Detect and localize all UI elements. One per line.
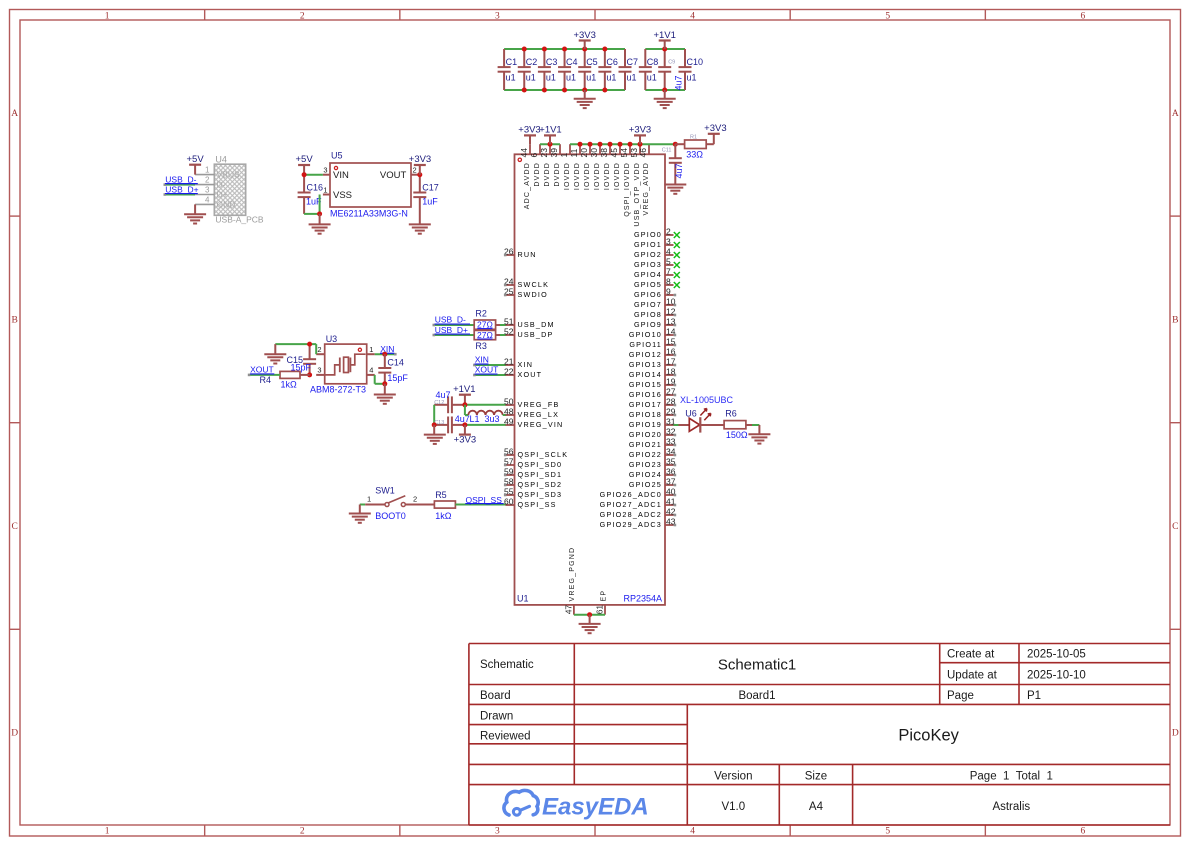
svg-text:C5: C5	[586, 57, 598, 67]
svg-text:A: A	[1172, 109, 1179, 119]
svg-text:2: 2	[413, 494, 417, 503]
svg-text:61: 61	[595, 605, 605, 615]
svg-text:B: B	[12, 315, 18, 325]
U1 top pin 30 IOVDD	[589, 144, 601, 190]
svg-text:QSPI_SD3: QSPI_SD3	[518, 490, 563, 499]
svg-text:GPIO6: GPIO6	[634, 290, 662, 299]
svg-text:Astralis: Astralis	[992, 801, 1030, 813]
svg-text:52: 52	[504, 326, 514, 336]
svg-text:1: 1	[369, 345, 373, 354]
U1 top pin 38 IOVDD	[599, 144, 611, 190]
U1 pin 2 GPIO0	[634, 226, 680, 239]
U1 pin 52 USB_DP	[504, 326, 553, 339]
U1 pin 4 GPIO2	[634, 246, 680, 259]
svg-text:Create at: Create at	[947, 649, 995, 661]
U1 pin 57 QSPI_SD0	[504, 456, 562, 469]
svg-text:2: 2	[300, 827, 305, 837]
U1 pin 33 GPIO21	[629, 436, 676, 449]
svg-text:22: 22	[504, 366, 514, 376]
svg-text:QSPI_IOVDD: QSPI_IOVDD	[624, 162, 631, 217]
ground cap bank C9	[654, 90, 676, 108]
svg-text:VREG_FB: VREG_FB	[518, 400, 560, 409]
U1 pin 18 GPIO14	[629, 366, 676, 379]
svg-text:+3V3: +3V3	[573, 30, 595, 41]
svg-text:U4: U4	[215, 154, 227, 164]
capacitor C8	[639, 49, 659, 90]
svg-text:C: C	[1172, 522, 1178, 532]
power +3V3 ADC_AVDD	[518, 125, 540, 145]
net label USB_D+	[165, 184, 199, 194]
capacitor C13 4u7	[434, 414, 470, 433]
svg-text:USB_D+: USB_D+	[435, 325, 468, 335]
svg-text:Page: Page	[947, 690, 974, 702]
resistor R3 27ohm	[474, 330, 506, 351]
power +3V3 VREG (inverted)	[454, 425, 476, 446]
svg-text:DVDD: DVDD	[554, 162, 561, 187]
svg-text:+3V3: +3V3	[518, 125, 540, 136]
svg-text:D: D	[11, 729, 18, 739]
svg-text:GPIO22: GPIO22	[629, 450, 662, 459]
svg-text:QSPI_SCLK: QSPI_SCLK	[518, 450, 569, 459]
svg-text:GPIO21: GPIO21	[629, 440, 662, 449]
svg-text:U3: U3	[326, 334, 338, 344]
U1 pin 10 GPIO7	[634, 296, 676, 309]
svg-text:RUN: RUN	[518, 250, 537, 259]
wire VREG_VIN net	[465, 424, 506, 426]
svg-text:USB_D-: USB_D-	[165, 174, 196, 184]
ground crystal left	[264, 344, 286, 363]
svg-text:C1: C1	[506, 57, 518, 67]
junction U5 gnd node	[317, 211, 322, 216]
svg-text:1: 1	[105, 827, 110, 837]
U1 pin 55 QSPI_SD3	[504, 486, 562, 499]
svg-text:GPIO26_ADC0: GPIO26_ADC0	[600, 490, 662, 499]
wire R6 to ground	[746, 425, 760, 434]
svg-text:46: 46	[638, 148, 648, 158]
U1 pin 42 GPIO28_ADC2	[600, 506, 677, 519]
svg-text:4: 4	[666, 246, 671, 256]
U1 pin 48 VREG_LX	[504, 406, 559, 419]
svg-text:15pF: 15pF	[387, 373, 408, 383]
svg-text:GPIO13: GPIO13	[629, 360, 662, 369]
capacitor C7	[619, 49, 639, 90]
wire net USB_D- at R2	[433, 324, 475, 327]
svg-text:IOVDD: IOVDD	[614, 162, 621, 190]
U1 pin 7 GPIO4	[634, 266, 680, 279]
wire net XIN at crystal	[375, 353, 397, 356]
ground U5	[309, 214, 331, 234]
svg-text:GPIO16: GPIO16	[629, 390, 662, 399]
wire VREG_FB net	[465, 404, 506, 406]
svg-text:Board: Board	[480, 690, 511, 702]
svg-text:3: 3	[666, 236, 671, 246]
ground C14	[374, 384, 396, 404]
svg-text:+3V3: +3V3	[454, 435, 476, 446]
svg-text:GPIO10: GPIO10	[629, 330, 662, 339]
svg-text:IOVDD: IOVDD	[564, 162, 571, 190]
svg-text:VREG_VIN: VREG_VIN	[518, 420, 564, 429]
net label USB_D-	[165, 174, 198, 184]
junction VREG +1V1 node	[462, 402, 467, 407]
U1 pin 14 GPIO10	[629, 326, 676, 339]
net label USB_D- at R2	[435, 314, 471, 324]
svg-text:IOVDD: IOVDD	[604, 162, 611, 190]
wire IOVDD rail	[570, 143, 649, 145]
svg-text:1: 1	[105, 12, 110, 22]
svg-text:USB_D+: USB_D+	[165, 184, 198, 194]
svg-text:D-: D-	[217, 180, 226, 190]
svg-text:DVDD: DVDD	[544, 162, 551, 187]
svg-text:47: 47	[563, 605, 573, 615]
svg-text:GPIO24: GPIO24	[629, 470, 662, 479]
svg-text:45: 45	[609, 148, 619, 158]
svg-text:3: 3	[317, 365, 321, 374]
svg-text:54: 54	[619, 148, 629, 158]
svg-text:1: 1	[559, 153, 569, 158]
junction C15 bottom	[307, 372, 312, 377]
svg-text:USB_DM: USB_DM	[518, 320, 555, 329]
U1 pin 25 SWDIO	[504, 286, 548, 299]
ground C17	[409, 224, 431, 233]
svg-text:USB_D-: USB_D-	[435, 314, 466, 324]
svg-text:VIN: VIN	[333, 170, 349, 181]
svg-text:33Ω: 33Ω	[686, 149, 703, 159]
power +1V1 DVDD	[539, 125, 561, 145]
svg-text:3: 3	[323, 166, 327, 175]
svg-text:5: 5	[885, 12, 890, 22]
U1 pin 32 GPIO20	[629, 426, 676, 439]
junction PGND node	[587, 612, 592, 617]
svg-text:SWDIO: SWDIO	[518, 290, 548, 299]
svg-text:USB-A_PCB: USB-A_PCB	[215, 215, 264, 225]
U1 top pin 23 DVDD	[539, 144, 551, 186]
power +3V3 cap bank	[573, 30, 595, 49]
svg-text:4u7: 4u7	[674, 75, 684, 90]
svg-text:GPIO7: GPIO7	[634, 300, 662, 309]
svg-text:B: B	[1172, 315, 1178, 325]
U1 pin 8 GPIO5	[634, 276, 680, 289]
svg-text:Update at: Update at	[947, 670, 998, 682]
svg-text:SW1: SW1	[375, 485, 395, 495]
svg-text:USB_DP: USB_DP	[518, 330, 554, 339]
svg-text:2025-10-10: 2025-10-10	[1027, 670, 1086, 682]
svg-text:USB_OTP_VDD: USB_OTP_VDD	[634, 162, 641, 227]
U1 pin 51 USB_DM	[504, 316, 555, 329]
svg-text:u1: u1	[627, 73, 637, 83]
svg-text:4u7: 4u7	[436, 390, 451, 400]
svg-text:u1: u1	[606, 73, 616, 83]
resistor R1 33ohm	[675, 134, 714, 159]
svg-text:C9: C9	[668, 60, 675, 66]
svg-text:u1: u1	[526, 73, 536, 83]
regulator U5 ME6211A33M3G-N	[323, 151, 420, 219]
svg-text:23: 23	[539, 148, 549, 158]
svg-text:C10: C10	[687, 57, 704, 67]
svg-text:4: 4	[369, 365, 373, 374]
svg-text:5: 5	[885, 827, 890, 837]
svg-text:C7: C7	[627, 57, 639, 67]
svg-text:GPIO17: GPIO17	[629, 400, 662, 409]
svg-text:DVDD: DVDD	[534, 162, 541, 187]
U1 top pin 39 DVDD	[549, 144, 561, 186]
svg-text:GPIO2: GPIO2	[634, 250, 662, 259]
svg-text:+3V3: +3V3	[409, 154, 431, 165]
svg-text:GPIO3: GPIO3	[634, 260, 662, 269]
inductor L1 3u3	[468, 411, 502, 424]
svg-text:U6: U6	[685, 409, 697, 419]
svg-text:1: 1	[323, 185, 327, 194]
wire VREG_AVDD to filter	[649, 143, 675, 145]
svg-text:2: 2	[300, 12, 305, 22]
svg-text:7: 7	[666, 266, 671, 276]
svg-text:GPIO27_ADC1: GPIO27_ADC1	[600, 500, 662, 509]
svg-text:Schematic: Schematic	[480, 659, 534, 671]
svg-text:2: 2	[413, 166, 417, 175]
svg-text:GPIO23: GPIO23	[629, 460, 662, 469]
svg-text:1kΩ: 1kΩ	[281, 379, 298, 389]
U1 pin 12 GPIO8	[634, 306, 676, 319]
svg-text:GPIO8: GPIO8	[634, 310, 662, 319]
svg-text:u1: u1	[647, 73, 657, 83]
resistor R6 150ohm	[724, 409, 748, 441]
svg-text:RP2354A: RP2354A	[623, 594, 662, 604]
junction dots cap bank	[522, 47, 667, 93]
svg-text:GPIO11: GPIO11	[629, 340, 662, 349]
svg-text:u1: u1	[586, 73, 596, 83]
svg-text:3: 3	[495, 12, 500, 22]
svg-text:Drawn: Drawn	[480, 711, 513, 723]
svg-text:u1: u1	[687, 73, 697, 83]
svg-text:QSPI_SS: QSPI_SS	[518, 500, 557, 509]
svg-text:20: 20	[579, 148, 589, 158]
U1 pin 61 EP	[595, 590, 608, 615]
svg-text:D: D	[1172, 729, 1179, 739]
svg-text:VREG_LX: VREG_LX	[518, 410, 560, 419]
wire +3V3 cap bank top rail	[504, 48, 685, 50]
svg-text:VBUS: VBUS	[217, 170, 240, 180]
capacitor C6	[598, 49, 618, 90]
svg-text:6: 6	[529, 153, 539, 158]
wire +5V to VIN	[304, 174, 323, 176]
svg-text:P1: P1	[1027, 690, 1041, 702]
svg-text:GPIO0: GPIO0	[634, 230, 662, 239]
svg-text:GPIO9: GPIO9	[634, 320, 662, 329]
net label USB_D+ at R3	[435, 325, 471, 335]
crystal U3 ABM8-272-T3	[310, 334, 375, 394]
svg-text:GPIO12: GPIO12	[629, 350, 662, 359]
resistor R5 1k	[434, 490, 455, 521]
U1 top pin 44 ADC_AVDD	[519, 144, 531, 209]
svg-text:GPIO28_ADC2: GPIO28_ADC2	[600, 510, 662, 519]
resistor R2 27ohm	[474, 308, 506, 329]
U1 pin 47 VREG_PGND	[563, 547, 576, 615]
capacitor C5	[578, 49, 598, 90]
wire net USB_D- at U4	[164, 183, 196, 186]
svg-text:2: 2	[205, 176, 210, 185]
svg-text:4: 4	[690, 827, 695, 837]
svg-text:48: 48	[504, 406, 514, 416]
power +3V3 IOVDD	[629, 125, 651, 145]
U1 pin 16 GPIO12	[629, 346, 676, 359]
svg-text:R4: R4	[260, 375, 272, 385]
svg-text:21: 21	[504, 356, 514, 366]
capacitor C15	[287, 344, 317, 375]
svg-text:U1: U1	[517, 594, 529, 604]
U1 pin 21 XIN	[504, 356, 533, 369]
U1 pin 40 GPIO26_ADC0	[600, 486, 677, 499]
ground U4	[184, 204, 206, 223]
U1 pin 56 QSPI_SCLK	[504, 446, 568, 459]
svg-text:L1 3u3: L1 3u3	[470, 414, 500, 424]
svg-text:IOVDD: IOVDD	[594, 162, 601, 190]
EasyEDA logo	[504, 790, 649, 820]
ground C11	[664, 185, 686, 194]
capacitor C17	[413, 175, 439, 225]
svg-text:R1: R1	[690, 134, 697, 140]
svg-text:QSPI_SD1: QSPI_SD1	[518, 470, 563, 479]
junction C15 top	[307, 342, 312, 347]
wire VREG_LX to U1	[503, 414, 507, 416]
U1 pin 22 XOUT	[504, 366, 542, 379]
svg-text:C16: C16	[307, 183, 324, 193]
svg-text:Board1: Board1	[738, 690, 775, 702]
resistor R4	[260, 371, 310, 389]
junction C14 bottom	[382, 381, 387, 386]
svg-text:R2: R2	[475, 308, 487, 318]
U1 pin 59 QSPI_SD1	[504, 466, 562, 479]
U1 pin 28 GPIO17	[629, 396, 676, 409]
wire SW1 gnd side	[360, 504, 385, 506]
svg-text:ME6211A33M3G-N: ME6211A33M3G-N	[330, 209, 408, 219]
svg-text:GPIO29_ADC3: GPIO29_ADC3	[600, 520, 662, 529]
svg-text:ABM8-272-T3: ABM8-272-T3	[310, 384, 366, 394]
U1 top pin 20 IOVDD	[579, 144, 591, 190]
U1 pin 49 VREG_VIN	[504, 416, 563, 429]
svg-text:30: 30	[589, 148, 599, 158]
U1 pin 37 GPIO25	[629, 476, 676, 489]
ground VREG	[424, 425, 446, 444]
wire crystal pin2 to C15	[275, 344, 316, 354]
U1 pin 24 SWCLK	[504, 276, 549, 289]
U1 pin 60 QSPI_SS	[504, 496, 557, 509]
wire GPIO19 to LED	[674, 424, 690, 426]
svg-text:C6: C6	[606, 57, 618, 67]
svg-text:Page 1 Total 1: Page 1 Total 1	[970, 771, 1053, 783]
U1 top pin 11 IOVDD	[569, 144, 581, 190]
net label XIN at U1	[475, 354, 489, 364]
wire net XOUT at U1	[473, 374, 506, 377]
svg-text:C: C	[12, 522, 18, 532]
U1 pin 31 GPIO19	[629, 416, 676, 429]
U1 pin 34 GPIO22	[629, 446, 676, 459]
svg-text:+5V: +5V	[296, 154, 314, 165]
title block text	[480, 649, 1086, 814]
svg-text:SWCLK: SWCLK	[518, 280, 550, 289]
ground SW1	[349, 505, 371, 523]
svg-text:GPIO1: GPIO1	[634, 240, 662, 249]
U1 top pin 6 DVDD	[529, 144, 541, 186]
svg-text:38: 38	[599, 148, 609, 158]
connector U4 USB-A_PCB	[195, 154, 264, 224]
IC U1 RP2354A body	[515, 154, 666, 605]
svg-text:XIN: XIN	[475, 354, 489, 364]
junction dots IOVDD rail	[548, 142, 643, 147]
svg-text:GND: GND	[217, 199, 236, 209]
svg-text:6: 6	[1081, 12, 1086, 22]
svg-text:Size: Size	[805, 771, 827, 783]
svg-text:C3: C3	[546, 57, 558, 67]
svg-text:4: 4	[205, 195, 210, 204]
ground R6	[748, 434, 770, 443]
svg-text:C12: C12	[434, 400, 444, 406]
svg-text:XL-1005UBC: XL-1005UBC	[680, 395, 734, 405]
svg-text:6: 6	[1081, 827, 1086, 837]
U1 pin 27 GPIO16	[629, 386, 676, 399]
capacitor C2	[518, 49, 538, 90]
wire net QSPI_SS	[455, 504, 506, 506]
svg-text:GPIO4: GPIO4	[634, 270, 662, 279]
svg-text:3: 3	[495, 827, 500, 837]
svg-text:GPIO20: GPIO20	[629, 430, 662, 439]
wire C16 to VSS	[304, 195, 320, 214]
svg-text:11: 11	[569, 148, 579, 157]
svg-text:1uF: 1uF	[422, 197, 438, 207]
svg-text:4u7: 4u7	[674, 163, 684, 178]
svg-text:1: 1	[367, 494, 371, 503]
capacitor C9	[658, 49, 683, 91]
svg-text:+3V3: +3V3	[629, 125, 651, 136]
svg-text:VOUT: VOUT	[380, 170, 407, 181]
capacitor C1	[498, 49, 518, 90]
svg-text:2025-10-05: 2025-10-05	[1027, 649, 1086, 661]
U1 pin 50 VREG_FB	[504, 396, 559, 409]
svg-text:GPIO25: GPIO25	[629, 480, 662, 489]
capacitor C10	[679, 49, 704, 90]
U1 pin 17 GPIO13	[629, 356, 676, 369]
ground cap bank C5	[574, 90, 596, 108]
svg-text:BOOT0: BOOT0	[375, 511, 406, 521]
power +3V3 U5	[409, 154, 431, 175]
net label XIN crystal side	[380, 344, 394, 354]
net label QSPI_SS	[465, 495, 503, 505]
wire cap bank bottom rail	[504, 89, 685, 91]
svg-text:PicoKey: PicoKey	[898, 727, 959, 745]
svg-text:GPIO5: GPIO5	[634, 280, 662, 289]
ground U1 EP	[579, 615, 601, 634]
svg-text:V1.0: V1.0	[721, 801, 745, 813]
svg-text:+1V1: +1V1	[453, 384, 475, 395]
U1 top pin 45 IOVDD	[609, 144, 621, 190]
power +1V1 VREG	[453, 384, 475, 405]
svg-text:Schematic1: Schematic1	[718, 657, 796, 674]
U1 pin 41 GPIO27_ADC1	[600, 496, 677, 509]
U1 pin 29 GPIO18	[629, 406, 676, 419]
svg-text:XOUT: XOUT	[475, 364, 499, 374]
svg-text:QSPI_SD2: QSPI_SD2	[518, 480, 563, 489]
svg-text:EP: EP	[600, 590, 607, 602]
U1 top pin 1 IOVDD	[559, 144, 571, 190]
svg-text:XOUT: XOUT	[250, 364, 274, 374]
svg-text:44: 44	[519, 148, 529, 158]
U1 pin 43 GPIO29_ADC3	[600, 516, 677, 529]
svg-text:1: 1	[205, 166, 210, 175]
svg-text:Version: Version	[714, 771, 752, 783]
svg-text:R5: R5	[435, 490, 447, 500]
svg-text:+5V: +5V	[187, 154, 205, 165]
svg-text:C2: C2	[526, 57, 538, 67]
wire +1V1 to L1	[465, 405, 468, 415]
svg-text:GPIO19: GPIO19	[629, 420, 662, 429]
